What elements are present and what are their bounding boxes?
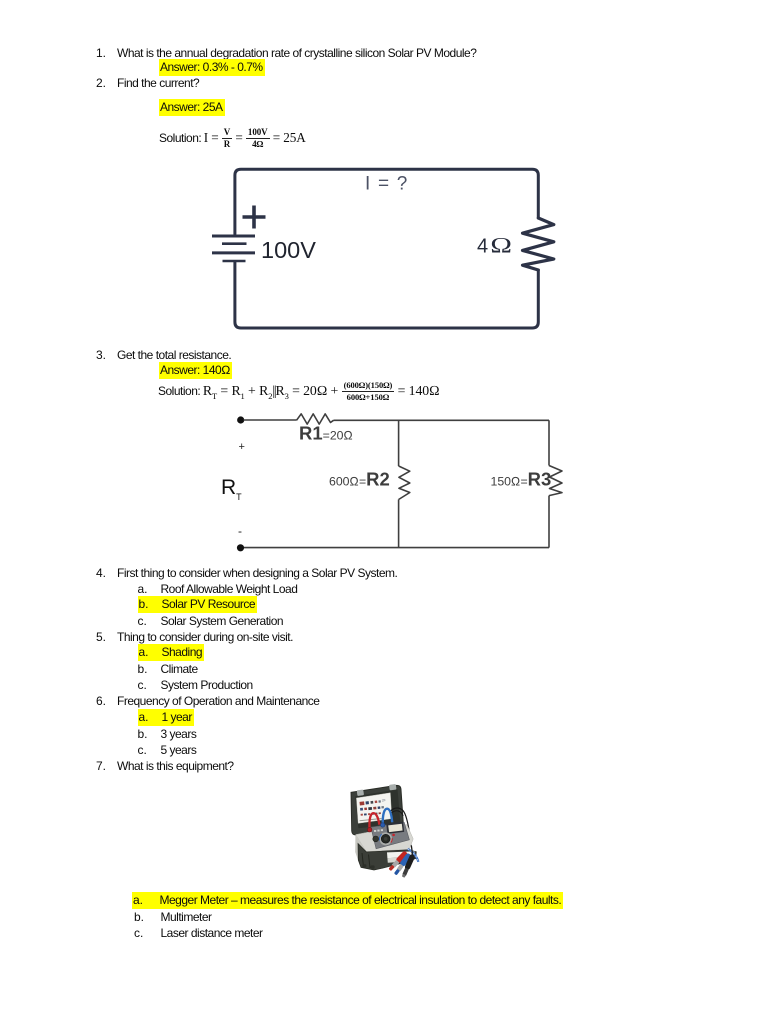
label thumbnail row 3 [361,812,381,816]
resistor R2 zigzag [399,466,410,500]
wire R1 to top-right corner [334,419,550,421]
lower case body [358,844,416,871]
blue alligator clip [393,852,412,876]
resistor 4ohm zigzag [523,218,554,270]
meter lid latch right [389,784,397,790]
svg-text:-: - [238,524,242,538]
wire: top + left-upper + right-upper of loop [235,169,538,234]
Q2 line [96,76,199,91]
button row [374,830,376,832]
left side face [355,835,367,866]
node dot top-left terminal [237,416,244,423]
wire middle branch upper [398,420,400,466]
battery 100V plates [212,236,255,261]
Q5 line [96,630,293,645]
resistor R1 zigzag [297,414,334,424]
case feet [362,864,366,867]
MEGGER METER PHOTO (stylized SVG) [343,777,443,889]
meter lid white label [356,793,391,824]
display bezel [386,822,404,834]
Q3 solution equation [158,381,440,404]
meter lid latch left [357,790,364,796]
front white sticker [387,851,415,858]
Q3 answer highlighted [159,363,232,378]
Q6 line [96,694,319,709]
svg-text:+: + [239,441,245,453]
rotary dial plate [379,832,392,845]
svg-text:RT: RT [221,476,242,502]
label thumbnail row 2 [360,806,384,811]
Q1 line [96,46,476,61]
secondary knob [373,836,379,842]
wire: bottom + left-lower + right-lower of loop [235,263,538,329]
wire bottom [244,547,549,549]
black cable to clip [411,845,412,855]
knob red scale marks [392,834,395,837]
meter case lid [351,785,403,835]
black test cable inner loop [392,811,404,816]
svg-text:R1=20Ω: R1=20Ω [299,423,353,444]
battery plus sign [243,206,266,229]
wire middle branch lower [398,500,400,548]
body groove [362,853,364,867]
label thumbnail row 1 [359,799,385,805]
node dot bottom-left terminal [237,544,244,551]
Q2 answer highlighted [159,100,225,115]
wire right branch upper [548,420,550,465]
rotary knob [381,834,390,843]
label fine print line [360,818,382,821]
black test cable right loop [391,808,411,845]
black alligator clip [401,854,416,879]
Q2 solution equation [159,128,306,149]
answer a highlighted megger [132,893,563,908]
blue test lead arc [383,809,392,825]
svg-text:4: 4 [477,236,488,258]
wire right branch lower [548,496,550,548]
panel front lip [366,849,409,855]
CIRCUIT 1 SVG [200,158,580,343]
display screen [388,824,402,832]
terminal blue [381,823,385,827]
Q7 line [96,759,234,774]
right blue-white cable [408,849,419,862]
Q1 answer highlighted [159,60,265,75]
svg-text:Ω: Ω [490,233,512,258]
svg-text:I = ?: I = ? [365,174,409,195]
CIRCUIT 2 SVG [212,404,572,559]
upper body light panel [356,825,414,852]
svg-text:150Ω=R3: 150Ω=R3 [491,469,552,490]
resistor R3 zigzag [549,466,562,496]
svg-text:100V: 100V [261,237,316,263]
red alligator clip [387,850,408,871]
dark inset control panel [371,822,410,849]
Q4 line [96,566,397,581]
red test lead arc [369,813,379,830]
svg-text:600Ω=R2: 600Ω=R2 [329,469,390,490]
wire top-left to R1 [244,419,297,421]
meter lid inner frame [355,790,400,829]
Q3 line [96,348,231,363]
terminal red [368,828,372,832]
